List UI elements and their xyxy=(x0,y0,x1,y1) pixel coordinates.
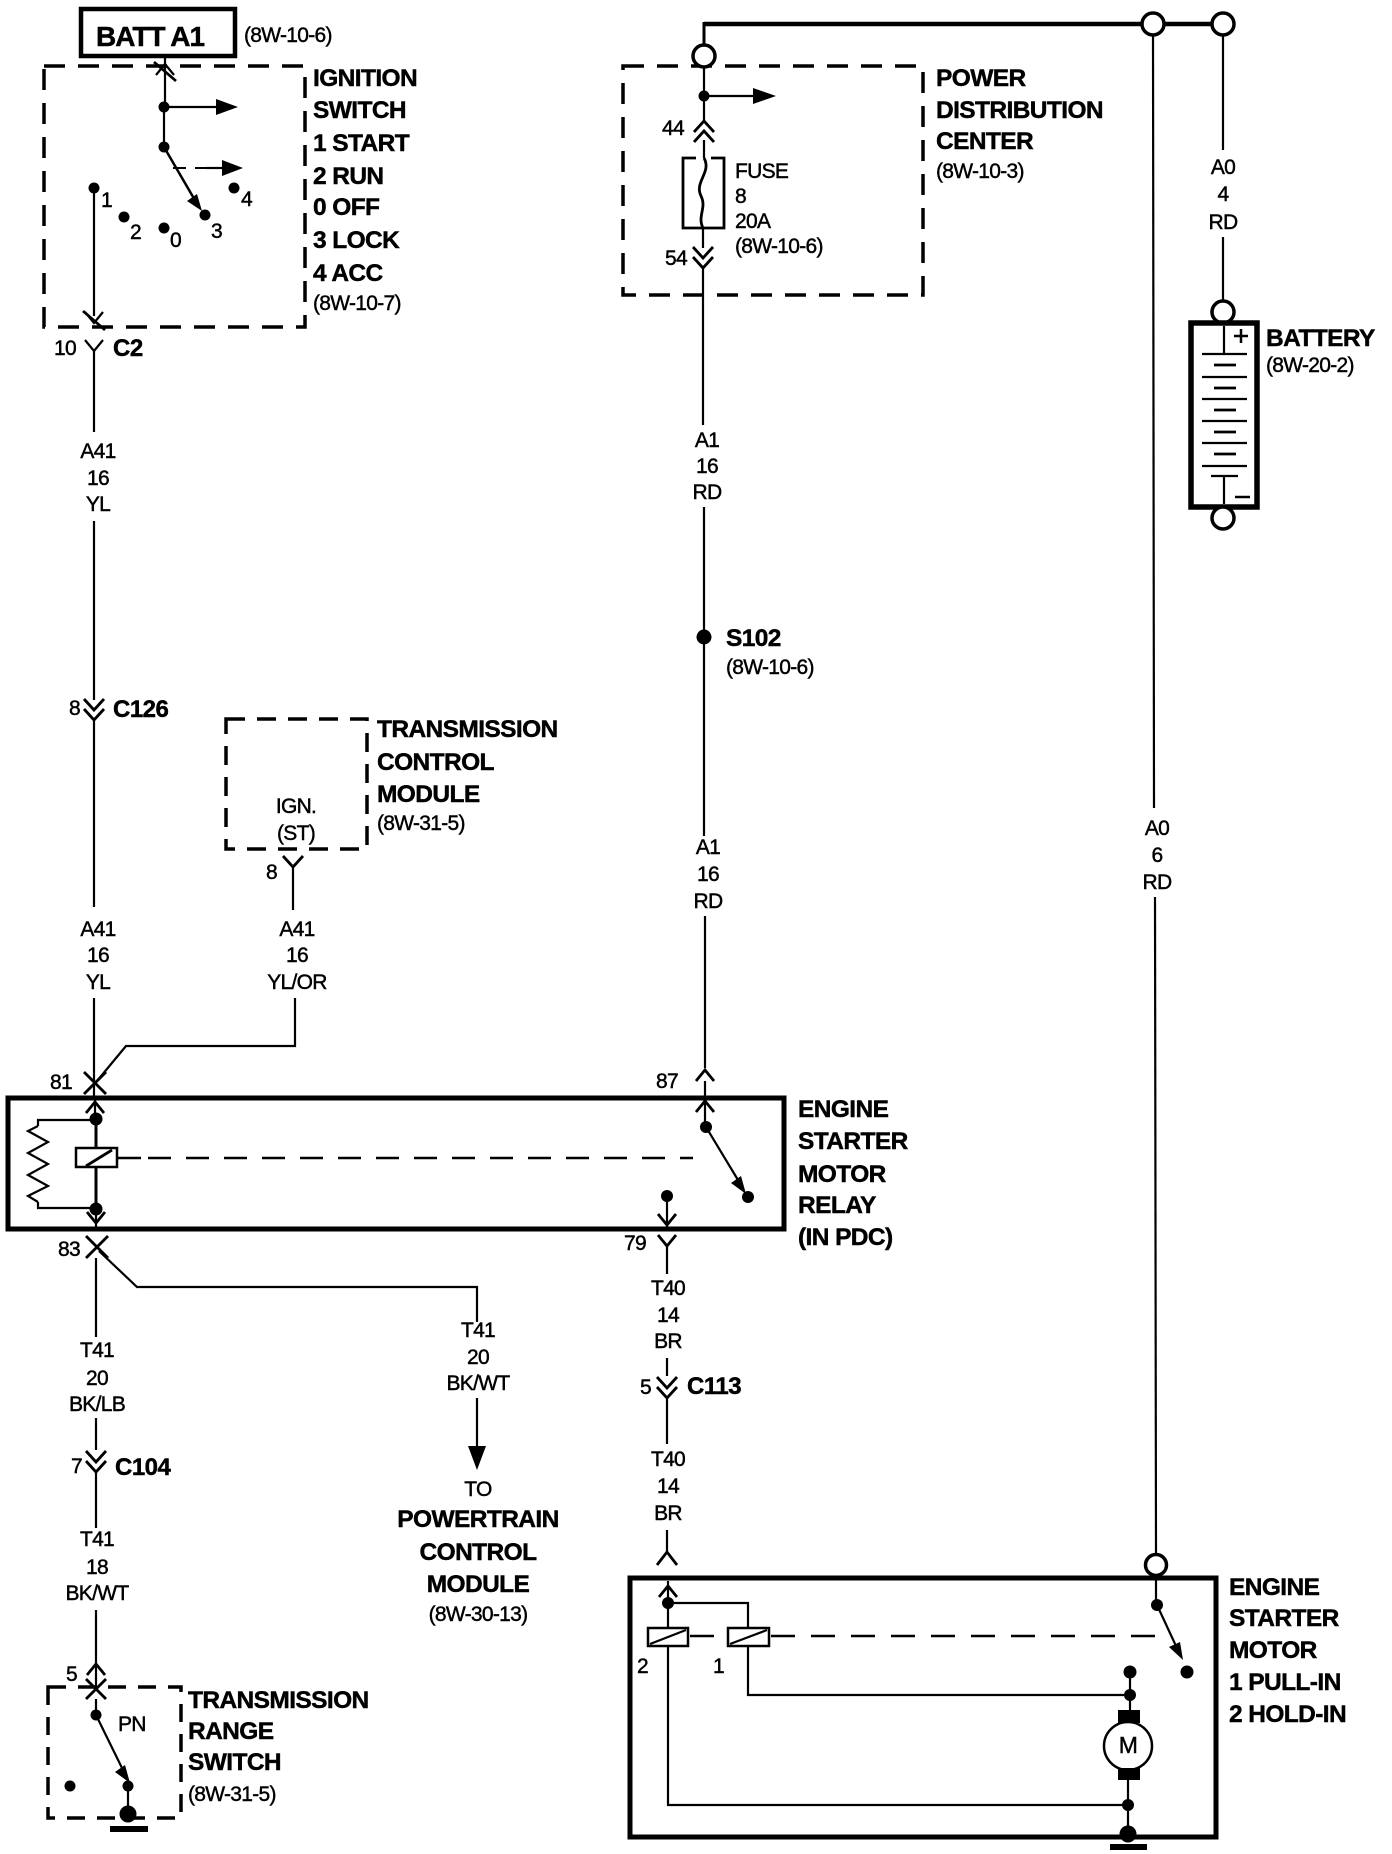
svg-text:A0: A0 xyxy=(1211,156,1235,179)
svg-text:16: 16 xyxy=(286,944,308,967)
svg-text:(8W-30-13): (8W-30-13) xyxy=(429,1603,528,1626)
wire label A41 16 YL (upper) xyxy=(80,440,115,516)
wire splice 83 to PCM branch xyxy=(99,1251,477,1322)
svg-text:4: 4 xyxy=(1218,183,1230,206)
svg-text:5: 5 xyxy=(640,1376,651,1399)
connector at TCM pin 8 xyxy=(283,856,303,880)
svg-text:2: 2 xyxy=(637,1655,648,1678)
eyelet terminal at solenoid stud xyxy=(1146,1555,1167,1576)
solenoid feed arrow inside box xyxy=(659,1581,677,1601)
svg-text:(8W-31-5): (8W-31-5) xyxy=(377,812,465,835)
wire to battery terminal xyxy=(1222,237,1224,301)
svg-text:A41: A41 xyxy=(279,918,314,941)
node: ignition switch feed junction xyxy=(159,102,170,113)
wire pin 54 out of PDC xyxy=(702,268,704,425)
wire pin 83 down xyxy=(95,1258,97,1337)
wire label T40 14 BR (lower) xyxy=(651,1448,685,1525)
dashed actuation link xyxy=(118,1157,141,1160)
svg-text:20: 20 xyxy=(467,1346,489,1369)
svg-text:CONTROL: CONTROL xyxy=(420,1539,538,1566)
wire S102 down xyxy=(703,644,705,836)
svg-text:0 OFF: 0 OFF xyxy=(313,194,380,221)
node: coil top junction xyxy=(90,1113,103,1126)
svg-text:20A: 20A xyxy=(735,210,771,233)
svg-text:2 RUN: 2 RUN xyxy=(313,163,384,190)
svg-text:(8W-10-6): (8W-10-6) xyxy=(735,235,823,258)
node: motor feed contact xyxy=(1124,1666,1137,1679)
eyelet terminal at starter feed xyxy=(1142,13,1164,35)
svg-text:RELAY: RELAY xyxy=(798,1192,876,1219)
svg-text:SWITCH: SWITCH xyxy=(188,1749,281,1776)
node: hold-in junction at motor xyxy=(1122,1799,1134,1811)
svg-text:(8W-10-6): (8W-10-6) xyxy=(244,24,332,47)
svg-text:RANGE: RANGE xyxy=(188,1718,274,1745)
svg-text:CENTER: CENTER xyxy=(936,128,1034,155)
wire label T41 18 BK/WT xyxy=(66,1528,130,1605)
svg-text:14: 14 xyxy=(657,1304,680,1327)
wire label A1 16 RD (upper) xyxy=(693,429,722,504)
svg-text:T40: T40 xyxy=(651,1448,685,1471)
svg-text:16: 16 xyxy=(87,944,109,967)
connector C2 symbol xyxy=(85,340,103,364)
svg-text:SWITCH: SWITCH xyxy=(313,97,406,124)
wire junction to hold-in coil xyxy=(667,1603,669,1628)
wire A0 6 RD to starter motor xyxy=(1155,897,1156,1555)
starter motor label text xyxy=(1229,1574,1346,1728)
wire label A41 16 YL (lower) xyxy=(80,918,115,994)
wire motor to ground xyxy=(1127,1780,1129,1834)
wire to starter motor connector xyxy=(666,1530,668,1552)
node: TRS unused contact xyxy=(65,1781,76,1792)
wire ignition feed down xyxy=(163,107,165,147)
power distribution center box (dashed) xyxy=(623,66,923,295)
fuse-block label BATT A1 xyxy=(81,9,235,56)
ground at TRS xyxy=(110,1806,148,1830)
svg-text:YL: YL xyxy=(86,971,110,994)
svg-text:BATTERY: BATTERY xyxy=(1266,325,1375,352)
node: coil bottom junction xyxy=(90,1203,103,1216)
connector X at TRS box edge xyxy=(86,1679,106,1699)
wire to TRS xyxy=(95,1610,97,1688)
svg-text:5: 5 xyxy=(66,1663,77,1686)
svg-text:7: 7 xyxy=(71,1455,82,1478)
svg-text:14: 14 xyxy=(657,1475,680,1498)
svg-text:8: 8 xyxy=(266,861,277,884)
node: PDC feed junction xyxy=(699,91,710,102)
connector X at pin 81 xyxy=(84,1072,106,1094)
svg-text:STARTER: STARTER xyxy=(798,1128,909,1155)
svg-text:C104: C104 xyxy=(115,1454,172,1481)
svg-text:2 HOLD-IN: 2 HOLD-IN xyxy=(1229,1701,1346,1728)
resistor (relay suppression) xyxy=(28,1120,96,1208)
wire pin 44 to fuse xyxy=(703,140,705,158)
transmission range switch box (dashed) xyxy=(48,1687,181,1818)
svg-text:(8W-10-6): (8W-10-6) xyxy=(726,656,814,679)
in-line connector C113 symbol xyxy=(657,1377,677,1398)
splice S102 xyxy=(697,630,712,645)
svg-text:3: 3 xyxy=(211,220,222,243)
svg-text:T41: T41 xyxy=(80,1339,114,1362)
svg-text:1: 1 xyxy=(101,189,112,212)
wire into TRS xyxy=(95,1699,97,1715)
svg-text:4: 4 xyxy=(241,188,253,211)
wire fuse to pin 54 xyxy=(702,228,704,248)
contact 1 xyxy=(89,183,100,194)
svg-text:BK/WT: BK/WT xyxy=(447,1372,511,1395)
solenoid switch arm xyxy=(1157,1605,1183,1660)
svg-text:POWERTRAIN: POWERTRAIN xyxy=(397,1506,558,1533)
node: relay pin 79 contact xyxy=(661,1190,673,1202)
svg-text:1 START: 1 START xyxy=(313,130,410,157)
wire C2 down xyxy=(93,364,95,432)
wire pull-in coil to motor xyxy=(748,1646,1124,1695)
svg-text:IGNITION: IGNITION xyxy=(313,65,417,92)
svg-text:83: 83 xyxy=(58,1238,80,1261)
contact 2 xyxy=(119,212,130,223)
arrow PDC internal feed xyxy=(704,88,776,104)
wire label T40 14 BR (upper) xyxy=(651,1277,685,1353)
wire A41 YL/OR to splice at pin 81 xyxy=(97,998,295,1081)
svg-text:16: 16 xyxy=(87,467,109,490)
svg-text:1: 1 xyxy=(713,1655,724,1678)
svg-text:87: 87 xyxy=(656,1070,678,1093)
svg-text:DISTRIBUTION: DISTRIBUTION xyxy=(936,97,1103,124)
svg-text:ENGINE: ENGINE xyxy=(1229,1574,1320,1601)
svg-text:3 LOCK: 3 LOCK xyxy=(313,227,400,254)
transmission control module box (dashed) xyxy=(226,719,367,849)
wire hold-in coil to motor ground side xyxy=(668,1646,1122,1805)
battery positive terminal eyelet xyxy=(1212,301,1234,323)
wire bus stub to PDC eyelet xyxy=(703,22,706,45)
connector X at pin 83 xyxy=(86,1236,108,1258)
wire label A41 16 YL/OR xyxy=(267,918,327,994)
wire label T41 20 BK/LB xyxy=(69,1339,125,1416)
connector pin 54 symbol xyxy=(693,247,713,268)
svg-text:2: 2 xyxy=(130,221,141,244)
node: solenoid switch pivot xyxy=(1151,1599,1163,1611)
pin 87 arrow inside relay xyxy=(696,1081,714,1127)
eyelet terminal at PDC xyxy=(693,45,715,67)
svg-text:C2: C2 xyxy=(113,335,143,362)
contact 0 xyxy=(159,223,170,234)
wire junction to pull-in coil xyxy=(668,1603,748,1628)
svg-text:BATT A1: BATT A1 xyxy=(96,21,205,52)
svg-text:18: 18 xyxy=(86,1556,108,1579)
svg-text:FUSE: FUSE xyxy=(735,160,789,183)
connector X at ignition switch top xyxy=(154,62,176,81)
engine starter motor relay box xyxy=(8,1098,784,1229)
in-line connector C104 symbol xyxy=(86,1451,106,1472)
wire label A0 6 RD xyxy=(1143,817,1172,894)
node: relay common contact xyxy=(700,1121,712,1133)
wire label T41 20 BK/WT xyxy=(447,1319,511,1395)
connector at pin 87 xyxy=(696,1070,714,1081)
relay coil K1 xyxy=(76,1120,117,1208)
eyelet terminal at battery feed xyxy=(1212,13,1234,35)
wire pin 79 to T40 label xyxy=(666,1260,668,1274)
starter motor M1 xyxy=(1104,1710,1152,1780)
svg-text:TO: TO xyxy=(464,1478,492,1501)
wire TRS contact to ground xyxy=(127,1786,129,1812)
svg-text:MODULE: MODULE xyxy=(427,1571,530,1598)
svg-text:MODULE: MODULE xyxy=(377,781,480,808)
svg-text:A0: A0 xyxy=(1145,817,1169,840)
svg-text:STARTER: STARTER xyxy=(1229,1605,1340,1632)
node: TRS PN contact xyxy=(123,1781,134,1792)
svg-text:BR: BR xyxy=(654,1502,682,1525)
svg-text:BK/WT: BK/WT xyxy=(66,1582,130,1605)
svg-text:A41: A41 xyxy=(80,440,115,463)
svg-text:(IN PDC): (IN PDC) xyxy=(798,1224,893,1251)
ignition switch box (dashed) xyxy=(44,66,305,327)
svg-text:YL/OR: YL/OR xyxy=(267,971,327,994)
TCM pin name IGN. (ST) xyxy=(276,795,316,845)
PDC label text xyxy=(936,65,1103,183)
wire solenoid stud down xyxy=(1155,1576,1157,1605)
svg-text:20: 20 xyxy=(86,1367,108,1390)
node: solenoid feed junction xyxy=(662,1597,674,1609)
contact 4 xyxy=(229,183,240,194)
svg-text:A41: A41 xyxy=(80,918,115,941)
svg-text:S102: S102 xyxy=(726,625,781,652)
svg-text:(8W-10-3): (8W-10-3) xyxy=(936,160,1024,183)
wire junction to pin 44 xyxy=(703,96,705,120)
svg-text:C113: C113 xyxy=(687,1373,741,1400)
svg-text:16: 16 xyxy=(696,455,718,478)
svg-text:RD: RD xyxy=(1209,211,1238,234)
TRS switch arm xyxy=(96,1715,130,1783)
fuse labels xyxy=(735,160,823,258)
wire to C113 xyxy=(666,1358,668,1376)
wire to C104 xyxy=(95,1418,97,1450)
node: relay NO contact xyxy=(742,1191,754,1203)
wire battery positive drop xyxy=(1222,35,1224,150)
svg-text:POWER: POWER xyxy=(936,65,1026,92)
wire label A1 16 RD (lower) xyxy=(694,836,723,913)
wire label A0 4 RD xyxy=(1209,156,1238,234)
svg-text:BR: BR xyxy=(654,1330,682,1353)
wire eyelet into PDC xyxy=(703,67,705,96)
fuse 8 body xyxy=(683,158,724,228)
wire C113 down xyxy=(666,1398,668,1444)
switch wiper arm (to position 3) xyxy=(164,147,202,211)
connector at starter motor xyxy=(657,1552,677,1565)
svg-text:6: 6 xyxy=(1152,844,1163,867)
svg-text:CONTROL: CONTROL xyxy=(377,749,495,776)
in-line connector C126 symbol xyxy=(84,699,104,720)
node: switch wiper pivot xyxy=(159,142,170,153)
wire A0 battery to starter (upper) xyxy=(1153,35,1154,808)
wire C126 down xyxy=(93,720,95,907)
svg-text:8: 8 xyxy=(735,185,746,208)
node: solenoid switch contact xyxy=(1181,1666,1194,1679)
connector arrow at box bottom xyxy=(83,311,105,330)
relay switch arm xyxy=(706,1127,746,1194)
svg-text:1 PULL-IN: 1 PULL-IN xyxy=(1229,1669,1341,1696)
svg-text:44: 44 xyxy=(662,117,685,140)
wire A41 to C126 xyxy=(93,521,95,700)
svg-text:YL: YL xyxy=(86,493,110,516)
svg-text:BK/LB: BK/LB xyxy=(69,1393,125,1416)
svg-text:ENGINE: ENGINE xyxy=(798,1096,889,1123)
svg-text:(ST): (ST) xyxy=(277,822,315,845)
wire contact 1 down to C2 xyxy=(93,193,95,316)
connector at pin 79 xyxy=(658,1235,676,1260)
ground at starter motor xyxy=(1110,1826,1147,1848)
pin 83 arrow inside relay xyxy=(87,1208,105,1228)
svg-text:81: 81 xyxy=(50,1071,72,1094)
TRS label text xyxy=(188,1687,369,1806)
svg-text:(8W-20-2): (8W-20-2) xyxy=(1266,354,1354,377)
svg-text:TRANSMISSION: TRANSMISSION xyxy=(188,1687,369,1714)
pull-in coil 1 xyxy=(728,1628,769,1646)
arrow to PCM xyxy=(468,1446,486,1470)
battery B1 xyxy=(1191,323,1257,507)
svg-text:M: M xyxy=(1119,1732,1137,1758)
wire to PCM arrow xyxy=(476,1398,478,1446)
node: pull-in junction at motor xyxy=(1124,1689,1136,1701)
dashed actuator arrow xyxy=(173,160,243,176)
svg-text:MOTOR: MOTOR xyxy=(1229,1637,1318,1664)
svg-text:T41: T41 xyxy=(461,1319,495,1342)
node: TRS common xyxy=(91,1710,102,1721)
svg-text:(8W-10-7): (8W-10-7) xyxy=(313,292,401,315)
battery positive bus xyxy=(704,22,1223,27)
wire to splice S102 xyxy=(703,507,705,637)
svg-text:T40: T40 xyxy=(651,1277,685,1300)
wire A1 to relay pin 87 xyxy=(704,916,706,1068)
svg-text:C126: C126 xyxy=(113,696,169,723)
svg-text:TRANSMISSION: TRANSMISSION xyxy=(377,716,558,743)
svg-text:RD: RD xyxy=(694,890,723,913)
svg-text:0: 0 xyxy=(170,229,181,252)
svg-text:A1: A1 xyxy=(695,429,719,452)
svg-text:(8W-31-5): (8W-31-5) xyxy=(188,1783,276,1806)
ignition switch label text xyxy=(313,65,417,315)
relay label text xyxy=(798,1096,909,1251)
engine starter motor box xyxy=(630,1578,1216,1837)
wire BATT A1 to ignition switch xyxy=(164,56,166,107)
svg-text:54: 54 xyxy=(665,247,688,270)
svg-text:RD: RD xyxy=(1143,871,1172,894)
svg-text:RD: RD xyxy=(693,481,722,504)
connector at TRS pin 5 xyxy=(87,1664,105,1675)
svg-text:16: 16 xyxy=(697,863,719,886)
hold-in coil 2 xyxy=(648,1628,688,1646)
svg-text:T41: T41 xyxy=(80,1528,114,1551)
arrow to RUN feed xyxy=(164,99,238,115)
wire C104 down xyxy=(95,1472,97,1528)
svg-text:IGN.: IGN. xyxy=(276,795,316,818)
contact 3 xyxy=(200,210,211,221)
svg-text:10: 10 xyxy=(54,337,76,360)
svg-text:PN: PN xyxy=(118,1713,146,1736)
pin 81 arrow inside relay xyxy=(86,1100,104,1118)
connector pin 44 symbol xyxy=(694,121,714,142)
wire A41 to relay pin 81 xyxy=(93,998,95,1096)
dashed actuation link to solenoid switch xyxy=(690,1635,1162,1638)
wire motor feed xyxy=(1129,1672,1131,1712)
svg-text:8: 8 xyxy=(69,697,80,720)
svg-text:79: 79 xyxy=(624,1232,646,1255)
wire TCM pin 8 down xyxy=(292,880,294,910)
PCM destination text xyxy=(397,1478,558,1626)
svg-text:4 ACC: 4 ACC xyxy=(313,260,384,287)
TCM label text xyxy=(377,716,558,835)
svg-text:A1: A1 xyxy=(696,836,720,859)
pin 79 arrow inside relay xyxy=(658,1196,676,1227)
battery negative terminal eyelet xyxy=(1212,507,1234,529)
svg-text:MOTOR: MOTOR xyxy=(798,1161,887,1188)
